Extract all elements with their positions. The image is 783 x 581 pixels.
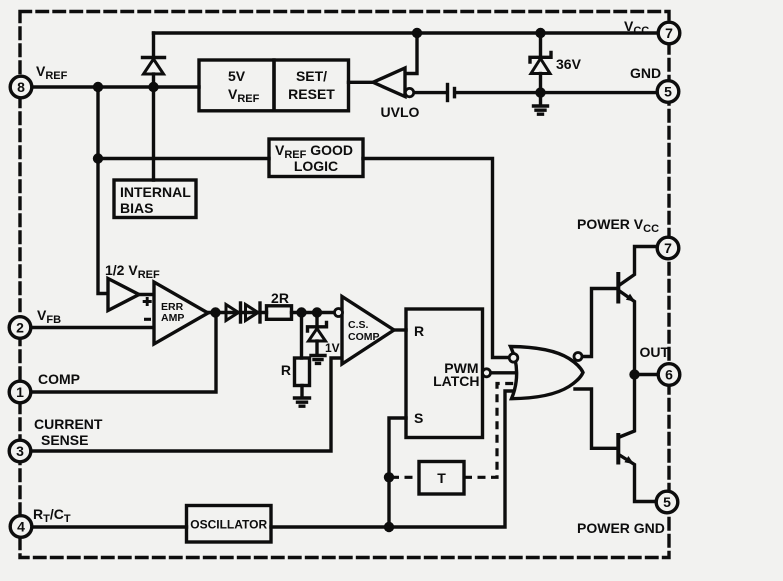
block 5V VREF regulator xyxy=(199,60,274,111)
wire SET/RESET to UVLO tip xyxy=(349,81,374,84)
svg-text:SENSE: SENSE xyxy=(41,432,88,448)
zener 1V clamp xyxy=(308,313,340,356)
svg-text:SET/: SET/ xyxy=(296,68,327,84)
ground for 36V zener xyxy=(534,93,548,115)
wire pin 4 RT/CT to oscillator xyxy=(32,525,187,528)
wire from VCC rail down to UVLO input xyxy=(405,33,417,74)
wire VREF rail from pin 8 to 5V VREF block xyxy=(32,85,199,88)
wire Q2 emitter to POWER GND pin 5 xyxy=(620,455,657,502)
svg-text:GND: GND xyxy=(630,65,661,81)
node junction at diode D1 anode xyxy=(148,82,158,92)
pin 4 RT/CT xyxy=(10,516,32,538)
node junction feeding VREF GOOD LOGIC xyxy=(93,153,103,163)
node junction VCC rail to UVLO xyxy=(412,28,422,38)
svg-text:CURRENT: CURRENT xyxy=(34,416,103,432)
wire GND rail from UVLO bubble to battery xyxy=(414,91,446,94)
svg-text:BIAS: BIAS xyxy=(120,200,153,216)
svg-text:5: 5 xyxy=(663,494,671,510)
pin 5 GND xyxy=(657,81,679,103)
node junction to resistor R xyxy=(296,307,306,317)
wire COMP from pin 1 up to ERR AMP output xyxy=(31,313,216,393)
pin 3 CURRENT SENSE xyxy=(9,440,31,462)
svg-text:S: S xyxy=(414,410,423,426)
diode D3 xyxy=(246,303,261,322)
node junction GND rail at 36V zener xyxy=(535,87,545,97)
svg-text:C.S.: C.S. xyxy=(348,319,369,331)
op-amp ERR AMP xyxy=(143,282,208,344)
svg-text:3: 3 xyxy=(16,443,24,459)
svg-text:OUT: OUT xyxy=(640,344,670,360)
wire Q1 collector to POWER VCC pin 7 xyxy=(620,247,657,286)
ground for 1V zener xyxy=(311,356,325,364)
block SET/RESET xyxy=(274,60,349,111)
wire NOR gate bottom output to Q2 base xyxy=(575,389,617,448)
svg-text:6: 6 xyxy=(665,367,673,383)
svg-text:4: 4 xyxy=(17,519,25,535)
comparator C.S. COMP xyxy=(335,297,395,365)
node junction on oscillator line xyxy=(384,522,394,532)
diode D2 xyxy=(226,303,241,322)
block PWM LATCH xyxy=(406,309,491,438)
svg-text:LATCH: LATCH xyxy=(433,373,479,389)
svg-text:COMP: COMP xyxy=(38,371,80,387)
pin 7 POWER VCC xyxy=(657,237,679,259)
svg-text:7: 7 xyxy=(664,240,672,256)
wire to VREF GOOD LOGIC block xyxy=(98,157,269,160)
resistor R to ground xyxy=(281,313,310,397)
svg-text:2: 2 xyxy=(16,320,24,336)
pin 7 VCC xyxy=(658,22,680,44)
pin 5 POWER GND xyxy=(656,491,678,513)
diode D1 VREF rail to VCC rail xyxy=(143,33,165,87)
wire vertical from VREF rail down to INTERNAL BIAS xyxy=(152,87,155,180)
block T toggle flip-flop xyxy=(419,462,464,495)
node junction to 1V zener xyxy=(312,307,322,317)
wire latch S input down to oscillator line xyxy=(389,418,406,527)
comparator UVLO xyxy=(373,68,420,120)
pin 6 OUT xyxy=(658,364,680,386)
svg-text:R: R xyxy=(414,323,424,339)
svg-text:36V: 36V xyxy=(556,56,582,72)
svg-text:7: 7 xyxy=(665,25,673,41)
NOR gate output driver xyxy=(509,347,583,399)
svg-text:2R: 2R xyxy=(271,290,289,306)
svg-text:1V: 1V xyxy=(325,341,340,355)
wire GND rail from battery to pin 5 xyxy=(457,91,657,94)
battery UVLO threshold reference xyxy=(448,85,455,101)
pin 8 VREF xyxy=(10,76,32,98)
zener 36V VCC clamp xyxy=(530,33,582,93)
wire PWM latch output to NOR gate middle input xyxy=(491,371,522,374)
wire VCC top rail xyxy=(154,31,659,34)
wire dashed from junction to T flip-flop xyxy=(391,476,419,479)
resistor 2R xyxy=(267,290,292,319)
wire VFB from pin 2 to ERR AMP - input xyxy=(31,326,154,329)
svg-text:INTERNAL: INTERNAL xyxy=(120,184,191,200)
ground for resistor R xyxy=(295,398,310,406)
wire NOR gate top output to Q1 base xyxy=(582,289,617,357)
block OSCILLATOR xyxy=(187,506,272,543)
svg-text:8: 8 xyxy=(17,79,25,95)
IC boundary dashed border xyxy=(20,12,669,558)
node junction OUT xyxy=(629,369,639,379)
svg-text:POWER GND: POWER GND xyxy=(577,520,665,536)
svg-text:T: T xyxy=(437,470,446,486)
node junction ERR AMP output xyxy=(210,307,220,317)
wire VREF GOOD LOGIC output to NOR gate top input xyxy=(363,159,510,358)
node junction on VREF rail at x=98 xyxy=(93,82,103,92)
svg-text:RESET: RESET xyxy=(288,86,335,102)
transistor Q2 (lower totem-pole NPN) xyxy=(616,433,634,465)
wire CURRENT SENSE pin 3 to C.S. COMP lower input xyxy=(31,358,342,451)
block INTERNAL BIAS xyxy=(114,180,196,218)
svg-text:5V: 5V xyxy=(228,68,246,84)
block VREF GOOD LOGIC xyxy=(269,139,363,177)
svg-text:LOGIC: LOGIC xyxy=(294,158,338,174)
buffer 1/2 VREF xyxy=(105,262,160,311)
wire dashed from T flip-flop to NOR gate input xyxy=(464,384,517,478)
node junction VCC rail to 36V zener xyxy=(535,28,545,38)
svg-text:R: R xyxy=(281,362,291,378)
pin 1 COMP xyxy=(9,381,31,403)
svg-text:COMP: COMP xyxy=(348,331,380,343)
wire oscillator output to NOR gate bottom input xyxy=(271,391,519,527)
wire Q1 emitter to OUT rail xyxy=(620,291,635,375)
transistor Q1 (upper totem-pole NPN) xyxy=(616,272,635,304)
wire 1/2 VREF buffer output to ERR AMP + input xyxy=(139,293,154,296)
wire ERR AMP output rail through diodes to 2R xyxy=(208,311,267,314)
svg-text:UVLO: UVLO xyxy=(381,104,420,120)
wire vertical from VREF rail down to 1/2 VREF buffer xyxy=(98,87,108,294)
wire C.S. COMP output to latch R input xyxy=(394,328,406,331)
wire OUT to pin 6 xyxy=(635,373,659,376)
svg-text:OSCILLATOR: OSCILLATOR xyxy=(190,518,267,532)
svg-text:1: 1 xyxy=(16,384,24,400)
node junction at T flip-flop tap xyxy=(384,472,394,482)
pin 2 VFB xyxy=(9,317,31,339)
svg-text:AMP: AMP xyxy=(161,312,184,324)
svg-text:5: 5 xyxy=(664,84,672,100)
wire 2R to C.S. COMP input bubble xyxy=(292,311,335,314)
wire Q2 collector to OUT rail xyxy=(620,375,635,438)
